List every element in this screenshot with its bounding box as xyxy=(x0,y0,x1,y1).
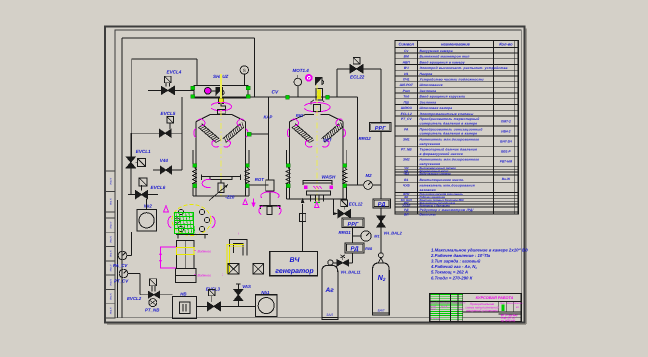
wire xyxy=(148,89,161,91)
magenta rotation ellipse xyxy=(211,102,231,110)
wire xyxy=(297,86,299,97)
svg-text:лит: лит xyxy=(458,308,464,311)
svg-text:Тпд: Тпд xyxy=(403,95,409,99)
svg-text:5.Токмощ = 262 А: 5.Токмощ = 262 А xyxy=(431,270,468,275)
svg-text:ECL22: ECL22 xyxy=(350,74,365,79)
magnetron target C1 right xyxy=(223,124,244,143)
svg-text:Вакуумная камера: Вакуумная камера xyxy=(420,49,453,53)
svg-text:ЗМ1: ЗМ1 xyxy=(403,137,410,141)
wire bypass xyxy=(357,97,359,185)
chamber C2 outer walls xyxy=(285,150,287,164)
svg-text:Шлюзовая камера: Шлюзовая камера xyxy=(420,106,453,110)
flange xyxy=(246,184,250,188)
Ar gas bottle xyxy=(322,266,338,320)
svg-text:ШЛЮЗ: ШЛЮЗ xyxy=(401,106,413,110)
svg-text:VAS: VAS xyxy=(242,284,251,289)
svg-text:Устройство чистки подложности: Устройство чистки подложности xyxy=(420,78,484,82)
wire xyxy=(174,89,194,91)
svg-text:Натекатель млн.дозированного: Натекатель млн.дозированного xyxy=(420,137,480,141)
wire left riser xyxy=(130,133,132,194)
svg-text:вакуумной установки: вакуумной установки xyxy=(466,309,498,313)
flow controller RRG2 xyxy=(370,123,392,132)
wire CV manifold xyxy=(194,96,358,98)
svg-text:генератор: генератор xyxy=(275,268,314,275)
svg-text:CV: CV xyxy=(272,90,279,96)
sheet outer border xyxy=(105,27,525,323)
wire wall to ECL12 xyxy=(345,187,347,200)
svg-text:Символ: Символ xyxy=(398,42,414,47)
magenta ellipse C2 neck xyxy=(304,103,330,112)
svg-text:Вентиляционное масло.: Вентиляционное масло. xyxy=(420,178,465,182)
svg-text:-220: -220 xyxy=(225,194,235,199)
flange xyxy=(193,184,197,188)
svg-text:S: S xyxy=(243,68,246,73)
chamber C1 bottom xyxy=(193,195,249,197)
svg-text:РА: РА xyxy=(404,127,409,131)
magenta ellipse stem xyxy=(202,179,211,187)
green cell xyxy=(501,305,504,311)
title block dividers xyxy=(439,294,441,322)
gas cabinet boundary xyxy=(132,58,197,60)
svg-text:РД: РД xyxy=(378,202,386,208)
parts table xyxy=(395,41,518,215)
flange xyxy=(343,184,347,188)
magenta seal xyxy=(205,88,212,95)
bolt hole xyxy=(174,218,179,223)
machine enclosure boundary xyxy=(122,37,255,39)
svg-text:Инв.N: Инв.N xyxy=(109,293,112,300)
svg-text:РРГ: РРГ xyxy=(348,222,359,228)
valve VN_BAL11 xyxy=(337,260,349,266)
svg-text:EVCL4: EVCL4 xyxy=(167,70,182,75)
svg-text:наименование: наименование xyxy=(441,42,471,47)
svg-text:Водо-газовые клапаны: Водо-газовые клапаны xyxy=(420,173,452,176)
valve EVCL2 body xyxy=(148,291,159,298)
svg-text:Ршл: Ршл xyxy=(403,89,410,93)
svg-text:2.Рабочее давление : 10-2Па: 2.Рабочее давление : 10-2Па xyxy=(430,253,491,258)
svg-text:Ввод вращения карусели: Ввод вращения карусели xyxy=(420,95,466,99)
svg-text:ВН7-2Н: ВН7-2Н xyxy=(500,139,512,143)
svg-text:ВВ1-Р: ВВ1-Р xyxy=(501,150,511,154)
svg-text:напускания: напускания xyxy=(420,142,441,146)
centerline C1 xyxy=(220,98,222,196)
flange xyxy=(246,86,250,90)
svg-text:ПШ: ПШ xyxy=(403,100,409,104)
chamber C2 bottom xyxy=(286,198,346,200)
svg-text:ВЧ: ВЧ xyxy=(289,257,300,264)
gauge PA_CV xyxy=(118,251,127,260)
filter box right xyxy=(253,264,264,275)
N2 bottle valve xyxy=(379,253,384,258)
flange xyxy=(286,164,290,168)
DVF pump flange (top view) xyxy=(172,205,211,236)
flange xyxy=(286,184,290,188)
valve VN_BAL2 xyxy=(377,216,385,227)
ROT feedthrough xyxy=(266,180,274,191)
svg-text:RIG: RIG xyxy=(296,113,304,118)
svg-text:измеритель давления в камере: измеритель давления в камере xyxy=(420,132,478,136)
svg-text:R08: R08 xyxy=(365,247,373,251)
exhaust elbow duct xyxy=(230,240,248,256)
centerline C2 xyxy=(316,85,318,206)
svg-text:Вн-Ж: Вн-Ж xyxy=(502,177,511,181)
pressure regulator RD1 xyxy=(345,243,364,253)
svg-text:ЧВЗ: ЧВЗ xyxy=(403,173,409,176)
DVF green rotor block xyxy=(175,213,194,234)
wire RF feed xyxy=(302,204,304,252)
svg-text:Nb1: Nb1 xyxy=(261,290,270,295)
svg-text:ВЧ: ВЧ xyxy=(404,66,409,70)
svg-text:Водяное: Водяное xyxy=(198,250,212,254)
svg-text:ЗМ2: ЗМ2 xyxy=(403,157,410,161)
magenta arc xyxy=(168,216,171,228)
flange xyxy=(191,86,195,90)
flange xyxy=(247,132,251,136)
svg-text:6.Тподл = 270-290 К: 6.Тподл = 270-290 К xyxy=(431,275,473,280)
svg-text:PT_CV: PT_CV xyxy=(114,279,129,284)
svg-text:M1: M1 xyxy=(374,235,379,239)
chamber C2 walls xyxy=(290,114,343,121)
bolt hole xyxy=(178,209,183,214)
flange xyxy=(246,164,250,168)
left frame stamp boxes xyxy=(105,171,115,212)
wire xyxy=(243,74,245,85)
inner frame xyxy=(115,30,521,318)
svg-text:Лит: Лит xyxy=(499,302,505,305)
svg-text:VH_BAL2: VH_BAL2 xyxy=(384,230,403,235)
magenta arc xyxy=(212,216,215,228)
svg-text:ECL1.2: ECL1.2 xyxy=(401,112,412,116)
svg-text:БАЛ: БАЛ xyxy=(378,309,385,313)
bottle valve xyxy=(328,260,333,265)
svg-text:Заслонка: Заслонка xyxy=(420,100,437,104)
svg-text:EVCL5: EVCL5 xyxy=(161,111,176,116)
RF generator box xyxy=(270,252,318,276)
svg-text:Натекатель млн.дозированного: Натекатель млн.дозированного xyxy=(420,157,480,161)
bolt hole xyxy=(178,226,183,231)
svg-text:РД: РД xyxy=(404,208,409,212)
svg-text:Инв.N: Инв.N xyxy=(109,250,112,257)
magenta ellipse ROT xyxy=(261,192,279,198)
svg-text:PT_NB: PT_NB xyxy=(401,147,412,151)
svg-text:Пров: Пров xyxy=(430,308,436,311)
svg-text:WASH: WASH xyxy=(322,174,336,179)
gauge PT_CV xyxy=(119,269,128,278)
bias feedthrough xyxy=(218,183,224,192)
svg-text:Изм Лист: Изм Лист xyxy=(430,302,441,305)
svg-text:Инв.N: Инв.N xyxy=(109,222,112,229)
magenta arcs C1 xyxy=(198,119,205,126)
bellows right C1 xyxy=(245,168,249,184)
svg-text:Инв.N: Инв.N xyxy=(109,307,112,314)
wire gauges riser xyxy=(131,232,133,256)
svg-text:В1: В1 xyxy=(404,178,408,182)
svg-text:RRG1: RRG1 xyxy=(339,230,352,235)
chamber C1 outer walls xyxy=(192,150,194,164)
valve ECL22 xyxy=(353,57,360,64)
svg-text:Нагрев: Нагрев xyxy=(420,72,433,76)
svg-text:ECL12: ECL12 xyxy=(349,201,363,206)
gauge PT_NB xyxy=(149,299,157,307)
svg-text:РВТ-НМ: РВТ-НМ xyxy=(500,160,513,164)
bolt hole xyxy=(204,217,209,222)
svg-text:EVCL3: EVCL3 xyxy=(206,286,221,291)
magenta arcs C2 xyxy=(292,119,299,126)
svg-text:Nk2: Nk2 xyxy=(144,204,153,209)
svg-text:газового: газового xyxy=(420,188,436,192)
svg-text:ИВ4-2: ИВ4-2 xyxy=(501,129,510,133)
svg-text:Заслонка: Заслонка xyxy=(420,89,437,93)
svg-text:Инв.N: Инв.N xyxy=(109,279,112,286)
svg-text:Кол-во: Кол-во xyxy=(499,42,513,47)
magenta bracket xyxy=(161,247,177,268)
svg-text:Инв.N: Инв.N xyxy=(109,198,112,205)
svg-text:PT_NB: PT_NB xyxy=(145,308,160,313)
svg-text:Водяное: Водяное xyxy=(198,274,212,278)
feedthrough tube chamber2 xyxy=(316,89,322,101)
svg-text:Дата: Дата xyxy=(458,302,466,305)
magnetron target C2 right xyxy=(322,124,343,143)
svg-text:EVCL6: EVCL6 xyxy=(151,185,166,190)
wire xyxy=(146,199,148,210)
wire xyxy=(380,132,382,200)
svg-text:ШЛ.РОТ: ШЛ.РОТ xyxy=(400,83,414,87)
svg-text:PA_CV: PA_CV xyxy=(113,263,128,268)
svg-text::: : xyxy=(222,273,223,277)
bolt hole xyxy=(199,209,204,214)
svg-text:Шлюзование: Шлюзование xyxy=(420,83,443,87)
flange xyxy=(191,95,195,99)
svg-text:Ввод вращения в камеру: Ввод вращения в камеру xyxy=(420,60,465,64)
svg-text:RRG2: RRG2 xyxy=(359,136,372,141)
bellows left C2 xyxy=(286,168,290,184)
A triangle marker xyxy=(164,206,169,212)
svg-text:1.Максимальное удаление в каме: 1.Максимальное удаление в камере 2х10-6 … xyxy=(431,247,528,252)
svg-text:НВ: НВ xyxy=(180,291,187,296)
cabinet right edge xyxy=(196,59,198,86)
svg-text:КАР: КАР xyxy=(264,115,273,120)
carousel drive xyxy=(260,205,281,207)
substrate table C1 xyxy=(202,175,241,180)
flange xyxy=(246,95,250,99)
svg-text:Электромагнитные клапаны: Электромагнитные клапаны xyxy=(420,112,474,116)
magnetron target C2 left xyxy=(292,124,313,143)
svg-text:ПМТ-2: ПМТ-2 xyxy=(501,119,511,123)
valve ECL12 xyxy=(341,200,348,207)
svg-text:Подп: Подп xyxy=(452,302,458,305)
svg-text:измеритель давления в камере: измеритель давления в камере xyxy=(420,122,478,126)
svg-text:Термопарный датчик давления: Термопарный датчик давления xyxy=(420,147,478,151)
N2 gas bottle xyxy=(373,263,390,315)
wire ECL22 right xyxy=(363,68,381,70)
svg-text:MOT1.4: MOT1.4 xyxy=(293,68,310,73)
bolt hole xyxy=(199,226,204,231)
chamber C1 walls xyxy=(196,114,245,121)
svg-text:ВМ: ВМ xyxy=(404,55,409,59)
svg-text:Преобразователь ионизационный: Преобразователь ионизационный xyxy=(420,127,483,131)
svg-text:EVCL2: EVCL2 xyxy=(127,296,142,301)
filter box left xyxy=(228,264,239,275)
table rows xyxy=(395,52,518,54)
svg-text:Буч.В: Буч.В xyxy=(441,305,448,308)
wire M2 link xyxy=(346,184,357,186)
valve EVCL1 body xyxy=(126,157,135,168)
svg-text:PT_CV: PT_CV xyxy=(401,117,412,121)
connector xyxy=(326,95,330,99)
svg-text:Аг: Аг xyxy=(324,287,334,294)
svg-text:Электрод высокочаст. распылит.: Электрод высокочаст. распылит. устройств… xyxy=(420,66,508,70)
RF insulator xyxy=(300,214,306,222)
svg-text:Преобразователь термопарный: Преобразователь термопарный xyxy=(420,117,480,121)
chamber1 gate valve xyxy=(218,98,223,103)
sheet shadow right/bottom xyxy=(525,29,527,325)
svg-text:Н.контр: Н.контр xyxy=(430,318,440,321)
svg-text:V44: V44 xyxy=(160,158,169,163)
svg-text:M2: M2 xyxy=(366,173,373,178)
svg-text:ЗАЛ: ЗАЛ xyxy=(326,313,333,317)
magenta motor M xyxy=(306,75,313,82)
pressure regulator RD2 xyxy=(373,199,391,208)
svg-text:И1: И1 xyxy=(404,72,408,76)
svg-text:Инв.N: Инв.N xyxy=(109,264,112,271)
flange xyxy=(343,164,347,168)
svg-text:Инв.N: Инв.N xyxy=(109,178,112,185)
svg-text:N докум.: N докум. xyxy=(441,302,451,305)
connector xyxy=(286,95,290,99)
centerline shluz thick xyxy=(220,74,222,98)
gauge M1 xyxy=(361,231,371,241)
svg-text:Cv: Cv xyxy=(404,49,408,53)
svg-text:гр. МТ11-81: гр. МТ11-81 xyxy=(501,319,516,322)
svg-text:DET: DET xyxy=(323,137,332,142)
svg-text:напускания: напускания xyxy=(420,162,441,166)
svg-text:КУРСОВАЯ РАБОТА: КУРСОВАЯ РАБОТА xyxy=(476,296,514,300)
svg-text:натекатель млн.дозирования: натекатель млн.дозирования xyxy=(420,184,475,188)
flow controller RRG1 xyxy=(342,218,364,228)
svg-text:ПЧ1: ПЧ1 xyxy=(403,78,410,82)
bellows right C2 xyxy=(342,168,346,184)
wire ECL22 left xyxy=(337,68,350,70)
DVF flange plate xyxy=(176,235,208,239)
svg-text:Инв.N: Инв.N xyxy=(109,236,112,243)
svg-text:Вытяжной магнетрон тип: Вытяжной магнетрон тип xyxy=(420,55,470,59)
svg-text:БЛ: БЛ xyxy=(404,213,409,217)
svg-text:ЧУБ: ЧУБ xyxy=(403,184,411,188)
svg-text:EVCL1: EVCL1 xyxy=(136,149,151,154)
svg-text:РРГ: РРГ xyxy=(375,126,386,132)
wire to pump NB xyxy=(159,294,172,296)
wire bellows-ROT link xyxy=(249,184,269,186)
wire ECL12 to chamber xyxy=(333,199,335,214)
title block green stripes xyxy=(431,294,463,296)
svg-text:VH_BAL11: VH_BAL11 xyxy=(341,269,362,274)
shluz gauge xyxy=(240,66,248,74)
svg-text:Баллоны: Баллоны xyxy=(420,213,436,217)
magenta markers xyxy=(243,199,247,204)
DVF body xyxy=(177,241,195,269)
flange xyxy=(193,164,197,168)
svg-text:РД: РД xyxy=(351,246,360,253)
magnetron target C1 left xyxy=(198,124,219,143)
wire riser 182 xyxy=(181,133,183,170)
DVF base xyxy=(176,269,197,283)
bellows left C1 xyxy=(192,168,196,184)
yellow heater tube xyxy=(227,244,244,273)
svg-text:Редуктор с манометром /РД/: Редуктор с манометром /РД/ xyxy=(420,208,475,212)
svg-text:НВП: НВП xyxy=(403,60,411,64)
svg-text:3.Тип заряда : газовый: 3.Тип заряда : газовый xyxy=(431,259,481,264)
svg-text:ROT: ROT xyxy=(255,177,264,182)
svg-text:в форвакуумной насосе: в форвакуумной насосе xyxy=(420,152,464,156)
